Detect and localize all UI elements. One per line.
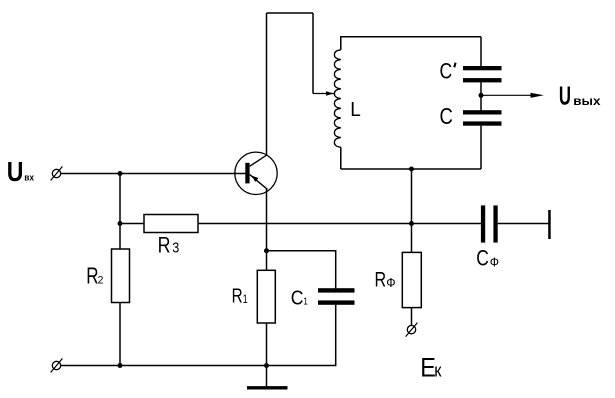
wire Rf to terminal [411, 308, 413, 326]
wire collector up [266, 13, 268, 155]
node emitter ground junction [264, 363, 269, 368]
wire C1 to ground rail [335, 305, 337, 366]
node tank bottom junction [409, 167, 414, 172]
svg-text:вых: вых [573, 94, 600, 108]
output arrow [481, 93, 544, 98]
wire ground stub [266, 366, 268, 387]
wire R1 to ground rail [266, 323, 268, 366]
wire to R3 [120, 223, 144, 225]
svg-text:R: R [158, 234, 171, 258]
svg-text:вх: вх [24, 172, 34, 183]
resistor R3 [144, 215, 198, 233]
wire tank top [341, 36, 481, 38]
node R3 junction [118, 221, 123, 226]
terminal end bar [548, 210, 551, 239]
capacitor C [463, 110, 502, 126]
label C1 [291, 287, 308, 309]
node output junction [479, 93, 484, 98]
capacitor C1 [318, 288, 355, 305]
wire tank bottom [341, 168, 481, 170]
label Ek [420, 353, 442, 383]
wire tank left lower stub [340, 147, 342, 169]
svg-text:1: 1 [303, 296, 308, 308]
resistor R2 [112, 249, 130, 303]
wire R3 to supply junction [198, 223, 481, 225]
svg-text:C: C [440, 60, 453, 84]
svg-text:3: 3 [172, 239, 179, 255]
label Cf [476, 247, 499, 271]
wire top horizontal [267, 12, 314, 14]
transistor VT1 [235, 152, 277, 194]
wire to Rf [411, 224, 413, 253]
wire to C1 [267, 251, 336, 289]
wire between C' and C [480, 82, 482, 110]
svg-text:к: к [434, 360, 442, 381]
wire tank bottom to supply rail [411, 169, 413, 224]
svg-text:Ф: Ф [386, 276, 395, 290]
svg-text:R: R [375, 267, 387, 291]
wire C to tank bottom [480, 126, 482, 169]
label Rf [375, 267, 396, 291]
node supply junction [409, 221, 414, 226]
svg-text:2: 2 [98, 274, 104, 286]
svg-text:L: L [350, 98, 361, 121]
wire ground rail [61, 365, 336, 367]
wire tap with arrow [313, 91, 334, 96]
wire down to tap [312, 13, 314, 94]
terminal Ek [406, 323, 418, 337]
capacitor C' [463, 66, 502, 82]
capacitor Cf [481, 205, 498, 242]
terminal input Uvx [51, 167, 63, 181]
label Uvyx [559, 81, 601, 111]
label R1 [232, 284, 248, 307]
resistor Rf [402, 252, 421, 307]
node base-bias junction [118, 171, 123, 176]
svg-text:C: C [291, 287, 304, 309]
wire emitter down through crossing [266, 189, 268, 271]
wire tank left upper stub [340, 36, 342, 50]
svg-text:U: U [7, 157, 24, 188]
node R2 ground junction [118, 363, 123, 368]
node emitter C1 junction [264, 248, 269, 253]
label Uvx [7, 157, 34, 188]
wire tank right upper [480, 37, 482, 66]
svg-text:R: R [86, 264, 98, 289]
wire junction down to R2 [119, 174, 121, 250]
svg-text:Ф: Ф [490, 254, 499, 270]
inductor L [334, 50, 340, 148]
label R3 [158, 234, 180, 258]
svg-text:C: C [440, 104, 453, 129]
svg-text:C: C [476, 247, 489, 271]
wire input to base [61, 173, 246, 175]
label R2 [86, 264, 103, 289]
terminal bottom left [51, 359, 63, 373]
wire Cf to end bar [498, 223, 549, 225]
svg-text:1: 1 [243, 294, 248, 306]
resistor R1 [257, 270, 275, 323]
svg-text:U: U [559, 81, 571, 111]
ground [247, 386, 288, 389]
wire R2 to ground rail [119, 303, 121, 366]
svg-text:R: R [232, 284, 243, 307]
